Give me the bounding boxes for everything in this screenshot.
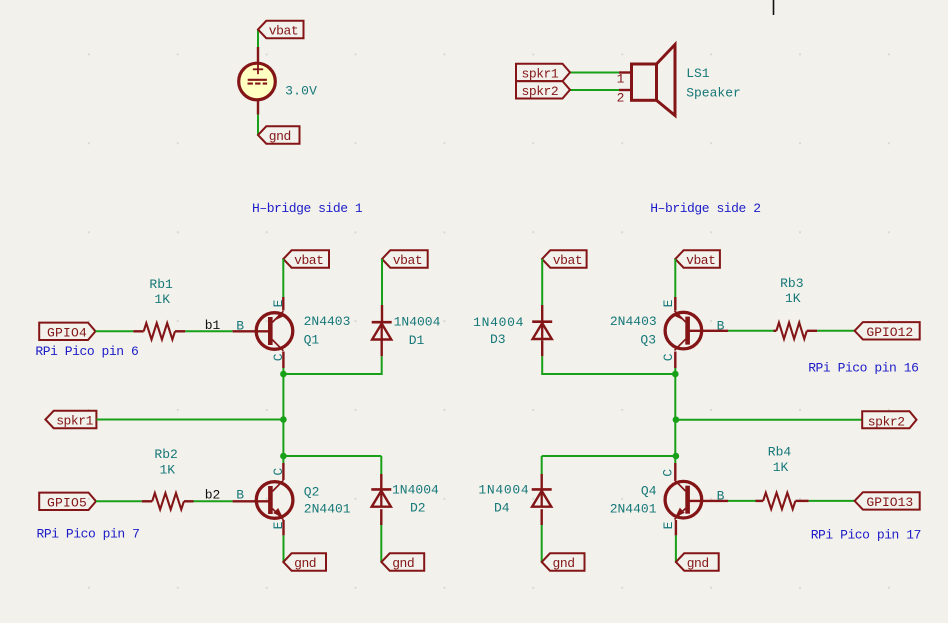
svg-text:1N4004: 1N4004: [392, 483, 439, 498]
svg-text:Q1: Q1: [304, 333, 320, 348]
svg-text:RPi Pico pin 6: RPi Pico pin 6: [35, 344, 138, 359]
svg-text:D1: D1: [409, 333, 425, 348]
svg-text:GPIO13: GPIO13: [866, 495, 913, 510]
svg-text:Rb4: Rb4: [768, 445, 792, 460]
svg-text:E: E: [661, 521, 676, 529]
svg-text:3.0V: 3.0V: [285, 83, 317, 98]
svg-text:H–bridge side 2: H–bridge side 2: [650, 201, 760, 216]
svg-text:Q4: Q4: [641, 484, 657, 499]
svg-text:vbat: vbat: [294, 253, 323, 268]
svg-text:GPIO4: GPIO4: [47, 326, 87, 341]
svg-text:b2: b2: [205, 488, 221, 503]
svg-text:spkr1: spkr1: [522, 67, 559, 82]
svg-text:B: B: [717, 318, 725, 333]
svg-text:b1: b1: [205, 318, 221, 333]
svg-text:1: 1: [617, 72, 625, 87]
svg-text:2N4401: 2N4401: [610, 502, 657, 517]
svg-text:GPIO5: GPIO5: [47, 496, 87, 511]
svg-text:2N4401: 2N4401: [304, 501, 351, 516]
svg-text:C: C: [661, 469, 676, 477]
svg-text:E: E: [271, 521, 286, 529]
svg-text:vbat: vbat: [686, 253, 715, 268]
svg-text:gnd: gnd: [553, 556, 575, 571]
svg-text:spkr1: spkr1: [56, 414, 93, 429]
svg-text:Q3: Q3: [640, 333, 656, 348]
svg-text:C: C: [271, 468, 286, 476]
svg-text:RPi Pico pin 16: RPi Pico pin 16: [808, 361, 918, 376]
svg-text:1K: 1K: [773, 460, 789, 475]
svg-text:B: B: [236, 318, 244, 333]
svg-text:vbat: vbat: [553, 253, 582, 268]
svg-text:LS1: LS1: [686, 66, 710, 81]
svg-text:Speaker: Speaker: [686, 86, 741, 101]
svg-text:Q2: Q2: [304, 484, 320, 499]
svg-text:gnd: gnd: [392, 556, 414, 571]
svg-text:GPIO12: GPIO12: [866, 325, 913, 340]
svg-text:vbat: vbat: [269, 24, 298, 39]
svg-text:Rb2: Rb2: [154, 447, 177, 462]
svg-text:vbat: vbat: [393, 253, 422, 268]
svg-text:B: B: [717, 489, 725, 504]
svg-text:RPi Pico pin 7: RPi Pico pin 7: [37, 527, 140, 542]
svg-text:gnd: gnd: [687, 556, 709, 571]
svg-text:H–bridge side 1: H–bridge side 1: [252, 201, 363, 216]
svg-text:2: 2: [617, 91, 625, 106]
svg-text:1K: 1K: [154, 292, 170, 307]
svg-text:D2: D2: [410, 501, 426, 516]
svg-text:1N4004: 1N4004: [473, 315, 524, 330]
svg-text:Rb3: Rb3: [780, 276, 803, 291]
svg-text:spkr2: spkr2: [868, 414, 905, 429]
svg-text:2N4403: 2N4403: [610, 314, 657, 329]
svg-text:1N4004: 1N4004: [394, 314, 441, 329]
svg-text:2N4403: 2N4403: [304, 314, 351, 329]
svg-text:gnd: gnd: [294, 556, 316, 571]
svg-text:1N4004: 1N4004: [478, 483, 529, 498]
svg-text:B: B: [236, 488, 244, 503]
svg-text:spkr2: spkr2: [522, 84, 559, 99]
svg-text:C: C: [271, 353, 286, 361]
svg-text:gnd: gnd: [269, 129, 291, 144]
svg-text:E: E: [271, 299, 286, 307]
svg-text:D3: D3: [490, 332, 506, 347]
svg-text:D4: D4: [494, 501, 510, 516]
svg-text:Rb1: Rb1: [149, 277, 173, 292]
svg-text:RPi Pico pin 17: RPi Pico pin 17: [811, 528, 921, 543]
svg-text:E: E: [661, 299, 676, 307]
svg-text:1K: 1K: [785, 291, 801, 306]
svg-text:C: C: [661, 353, 676, 361]
svg-text:1K: 1K: [160, 463, 176, 478]
